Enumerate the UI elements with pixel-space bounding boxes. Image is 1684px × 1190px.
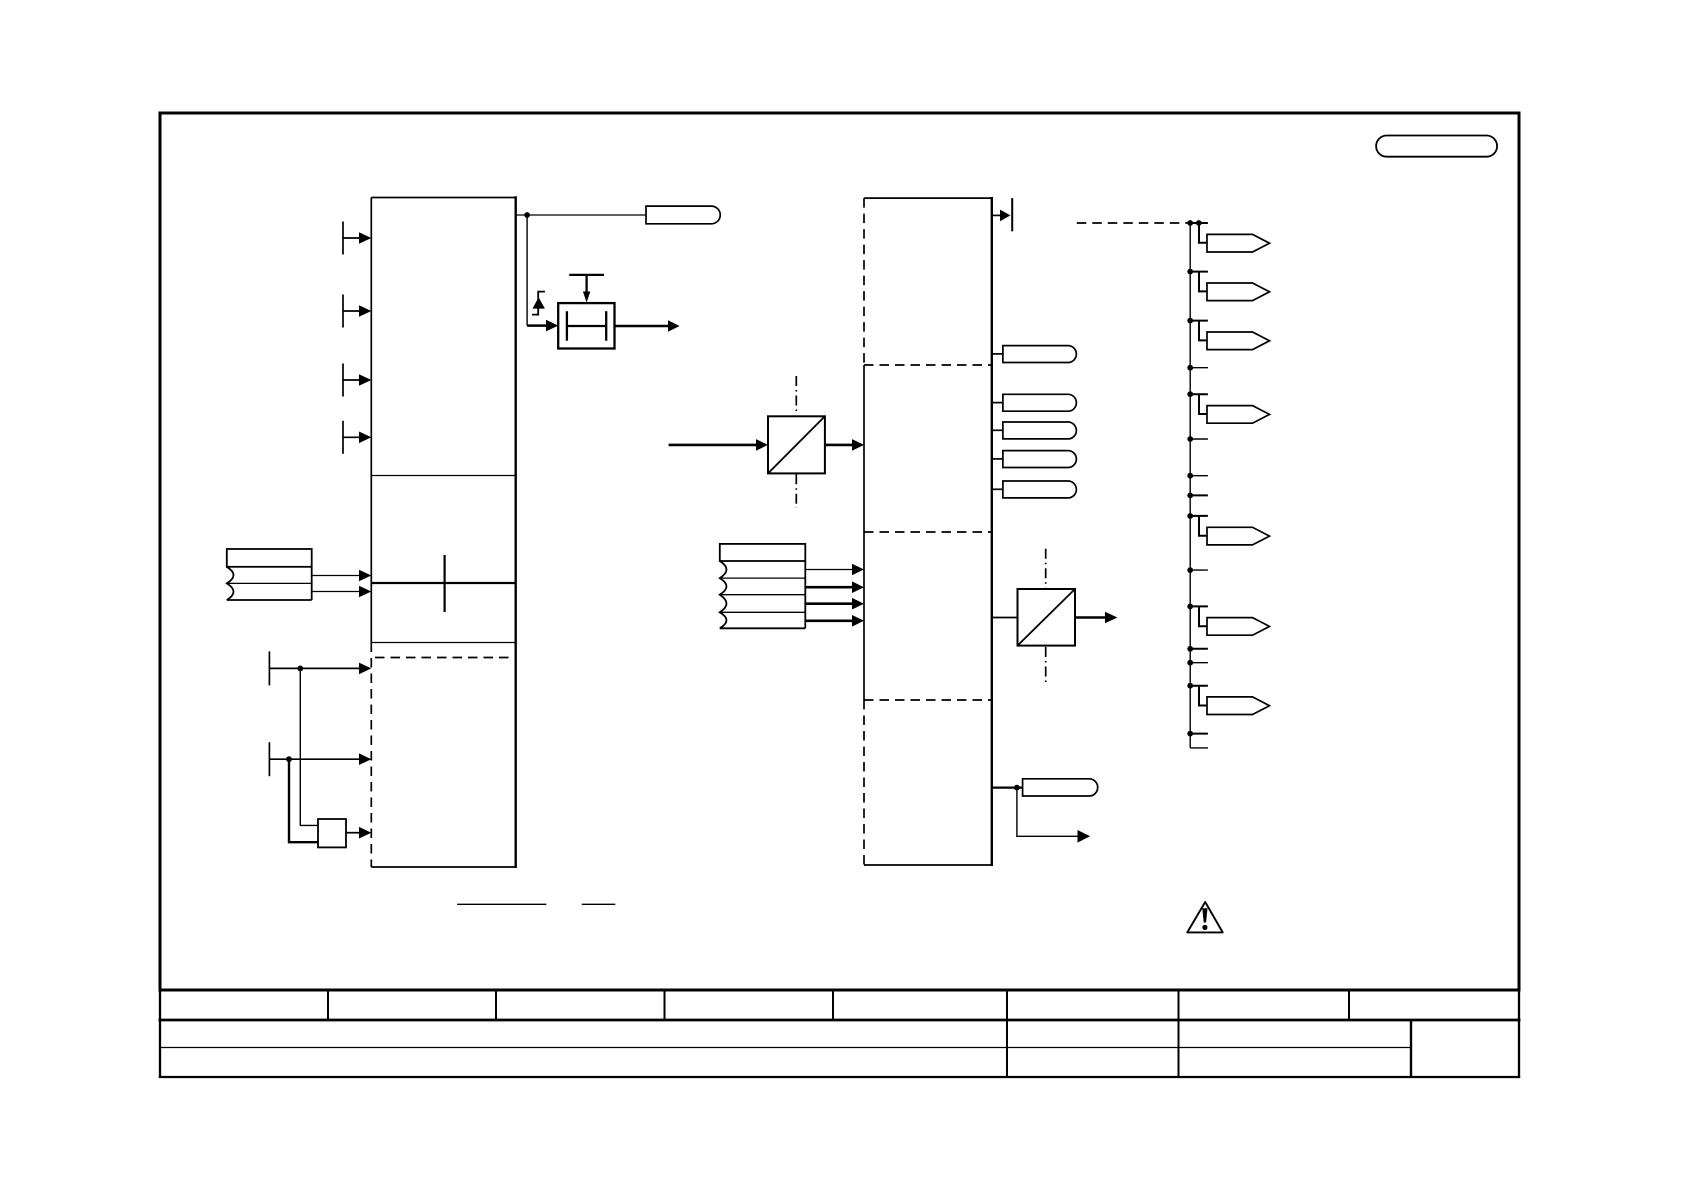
- terminator bar: [1011, 198, 1013, 231]
- title block thick separator: [159, 1019, 1521, 1022]
- pill P6: [992, 488, 1003, 490]
- connector stack X2: [720, 544, 806, 628]
- node dot E2: [1196, 220, 1202, 226]
- converter W2 stub: [992, 617, 1018, 619]
- pill P5: [992, 458, 1003, 460]
- converter W2 dash-dot axis: [1045, 549, 1047, 588]
- X1 wire 1: [312, 575, 360, 577]
- wire from node B down to box K1: [289, 759, 318, 842]
- pill P2: [992, 353, 1003, 355]
- chain tick row 3: [1187, 473, 1193, 479]
- wire node C down to capacitor box: [526, 215, 528, 326]
- input T 6: [269, 742, 360, 776]
- node dot C: [524, 212, 530, 218]
- wire from node A down to box K1: [300, 668, 318, 825]
- discharge T symbol above C1: [569, 275, 604, 292]
- U2 bottom pill stub: [992, 786, 1023, 788]
- node dot A: [297, 666, 303, 672]
- X2 wire 2: [805, 586, 853, 589]
- block U1 divider 1: [371, 475, 515, 477]
- note line 2: [582, 903, 616, 905]
- chain tick row 1: [1187, 365, 1193, 371]
- block U1 outline: [371, 196, 515, 868]
- C1 output arrow: [615, 325, 669, 328]
- chain pill row 4: [1187, 391, 1193, 397]
- block U1 dashed divider: [375, 657, 512, 659]
- chain tick row 8: [1187, 731, 1193, 737]
- connector stack X1: [227, 549, 312, 600]
- chain pill row 2: [1187, 269, 1193, 275]
- node dot B: [286, 756, 292, 762]
- chain vertical bus: [1189, 223, 1191, 748]
- X2 wire 1: [805, 569, 853, 571]
- drawing frame: [160, 113, 1519, 990]
- chain pill row 7: [1187, 683, 1193, 689]
- input arrow 3: [343, 364, 360, 397]
- X2 wire 4: [805, 619, 853, 622]
- note line 1: [457, 903, 546, 905]
- U2 top output arrow to bar: [992, 214, 1001, 216]
- top right stadium placeholder: [1376, 136, 1497, 157]
- block U2 dashed divider 2: [864, 531, 992, 533]
- block U2 dashed divider 1: [864, 364, 992, 366]
- block U1 internal tick: [444, 555, 446, 612]
- input T 5: [269, 651, 360, 685]
- chain tick row 2: [1187, 436, 1193, 442]
- wire node D down and right with arrow: [1017, 788, 1079, 837]
- block U1 internal bus line: [371, 582, 515, 584]
- warning triangle: [1187, 902, 1222, 932]
- converter W1 dash-dot axis: [795, 376, 797, 412]
- block U2 outline: [864, 197, 992, 866]
- title block lower rows: [159, 990, 1520, 1077]
- node dot E1: [1187, 220, 1193, 226]
- chain tick row 6: [1187, 646, 1193, 652]
- chain pill row 6: [1187, 604, 1193, 610]
- dashed net line: [1077, 222, 1190, 224]
- block U2 dashed divider 3: [864, 699, 992, 701]
- chain pill row 5: [1187, 513, 1193, 519]
- pill P3: [992, 402, 1003, 404]
- input arrow 1: [343, 222, 360, 255]
- chain tick row 5: [1187, 567, 1193, 573]
- edge trigger symbol: [532, 292, 545, 315]
- chain pill row 3: [1187, 318, 1193, 324]
- chain pill row 1: [1190, 223, 1208, 243]
- input arrow 2: [343, 295, 360, 328]
- converter W1 input arrow: [669, 444, 757, 447]
- arrow K1 to block: [346, 832, 360, 834]
- X1 wire 2: [312, 591, 360, 593]
- capacitor plates: [567, 311, 606, 341]
- input arrow 4: [343, 421, 360, 454]
- title block row1 cell borders: [328, 991, 1349, 1019]
- capacitor box C1: [558, 303, 614, 348]
- chain tick row 4: [1187, 493, 1193, 499]
- converter W2 box: [1018, 589, 1076, 646]
- X2 wire 3: [805, 602, 853, 605]
- chain bottom L: [1190, 747, 1208, 749]
- chain tick row 7: [1187, 660, 1193, 666]
- small box K1: [318, 819, 346, 847]
- converter W2 output arrow: [1075, 616, 1106, 619]
- converter W1 box: [768, 416, 825, 473]
- pill P1: [646, 206, 720, 224]
- wire block1 top to pill P1: [516, 214, 646, 216]
- block U1 divider 2: [371, 642, 515, 644]
- converter W1 output arrow: [825, 444, 853, 447]
- pill P4: [992, 429, 1003, 431]
- pill P7: [1023, 779, 1098, 796]
- node dot D: [1014, 785, 1020, 791]
